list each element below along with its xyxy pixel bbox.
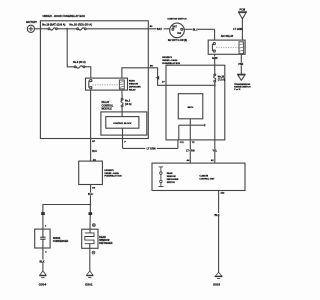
wire: junction to rear window defogger — [89, 205, 91, 230]
svg-text:CLIMATE: CLIMATE — [199, 175, 208, 178]
wire: fuse No.26 down through box — [214, 82, 216, 140]
svg-text:FUSE/RELAY BOX: FUSE/RELAY BOX — [162, 62, 180, 65]
connector on condenser wire — [41, 212, 45, 215]
svg-text:G504: G504 — [39, 282, 47, 286]
wire: noise condenser to ground G504 — [42, 248, 44, 271]
svg-text:IGNITION SWITCH: IGNITION SWITCH — [168, 19, 187, 21]
svg-text:LT GRN: LT GRN — [233, 28, 242, 31]
svg-text:BLU: BLU — [92, 150, 97, 153]
wire: A/C relay contact to under-dash fuse No.26, GRN — [214, 54, 216, 74]
connector on defogger wire — [89, 212, 93, 215]
rear window defogger switch — [158, 167, 179, 187]
svg-text:MODULE: MODULE — [102, 108, 113, 111]
node: junction to noise condenser — [89, 204, 91, 206]
svg-text:CONDENSER: CONDENSER — [53, 240, 69, 243]
climate control unit — [152, 163, 245, 190]
svg-text:BLK: BLK — [214, 214, 219, 217]
ground G501 — [85, 271, 93, 286]
fuse No.2 (10 A) — [121, 98, 132, 107]
svg-text:UNDER - DASH: UNDER - DASH — [104, 172, 119, 175]
wire: fuse No.9 to defogger relay contact — [85, 67, 91, 78]
svg-text:FUSE/RELAY BOX: FUSE/RELAY BOX — [104, 175, 122, 178]
svg-text:RELAY: RELAY — [129, 89, 136, 92]
svg-text:PCM: PCM — [240, 8, 246, 11]
fuse No.26 (7.5 A) — [214, 74, 225, 82]
wire: defogger to ground G501 — [89, 248, 91, 271]
control block — [106, 117, 139, 129]
svg-text:PNK: PNK — [238, 63, 243, 66]
svg-text:No.20 (RD) (50 A): No.20 (RD) (50 A) — [69, 23, 92, 27]
svg-text:LT GRN: LT GRN — [146, 148, 155, 151]
svg-text:WINDOW: WINDOW — [129, 84, 138, 86]
svg-text:BAT: BAT — [157, 28, 162, 31]
ignition switch — [168, 19, 188, 43]
svg-text:DRIVER'S: DRIVER'S — [162, 57, 172, 59]
svg-text:CONTROL BLOCK: CONTROL BLOCK — [113, 123, 132, 125]
rear window defogger — [82, 229, 113, 248]
svg-text:REAR: REAR — [129, 79, 135, 82]
svg-text:MICU: MICU — [188, 107, 194, 109]
wire: A/C relay coil to transmission range switch, PNK — [240, 54, 242, 74]
svg-text:IG2 HOT in ON (II): IG2 HOT in ON (II) — [168, 40, 187, 42]
wire: battery feed to ignition switch — [35, 28, 170, 30]
svg-text:DEFOGGER: DEFOGGER — [167, 179, 179, 181]
connector symbol on wire — [156, 76, 160, 80]
svg-text:SWITCH: SWITCH — [167, 182, 176, 184]
svg-text:(7.5 A): (7.5 A) — [218, 79, 225, 82]
wire: ignition IG2 to A/C relay — [184, 29, 214, 40]
wire: relay coil bottom to fuse No.2 — [121, 90, 123, 98]
svg-text:REAR: REAR — [99, 236, 106, 239]
wire: MICU to pins C11 / T3 — [179, 119, 205, 140]
connector arrow to PCM — [238, 8, 247, 18]
node: junction — [214, 84, 216, 86]
MICU — [178, 94, 203, 119]
svg-text:GRN: GRN — [212, 57, 218, 60]
svg-text:(10 A): (10 A) — [125, 103, 132, 106]
fuse No.18 (BAT) (100 A) — [42, 24, 65, 30]
under-hood fuse/relay box — [40, 14, 148, 139]
svg-text:No.9 (40 A): No.9 (40 A) — [73, 61, 86, 64]
svg-text:BLK: BLK — [39, 261, 44, 264]
svg-text:G501: G501 — [85, 282, 93, 286]
svg-text:DRIVER'S: DRIVER'S — [104, 170, 114, 172]
wire label BLK — [214, 213, 219, 217]
wire: control block output to under-dash box C11 — [123, 128, 178, 148]
svg-text:BATTERY: BATTERY — [26, 21, 37, 24]
A/C relay — [208, 35, 245, 54]
wire: relay coil top to under-dash box pin — [122, 68, 166, 86]
svg-text:LT GRN: LT GRN — [186, 151, 195, 153]
wire: fuse No.2 into control block — [121, 107, 123, 117]
rear window defogger relay — [86, 78, 142, 92]
noise condenser — [35, 229, 69, 248]
svg-text:BLU: BLU — [193, 28, 198, 31]
svg-text:WINDOW: WINDOW — [167, 176, 176, 178]
wire: junction to noise condenser — [43, 205, 91, 230]
driver's under-dash fuse/relay box — [79, 161, 123, 184]
svg-text:No.26: No.26 — [218, 76, 225, 78]
terminal + — [93, 224, 96, 227]
svg-text:BAT: BAT — [172, 25, 177, 28]
wire: box to junction, BLU — [89, 185, 91, 205]
terminal - — [92, 251, 95, 254]
svg-text:REAR: REAR — [167, 172, 173, 175]
wire: under-dash fuse No.26 to climate control unit, YEL — [214, 140, 216, 163]
svg-text:DEFOGGER: DEFOGGER — [129, 87, 141, 89]
ground G503 — [213, 272, 222, 286]
svg-text:No.18 (BAT) (100 A): No.18 (BAT) (100 A) — [42, 24, 65, 27]
svg-text:UNDER - DASH: UNDER - DASH — [162, 59, 177, 62]
svg-text:CONTROL UNIT: CONTROL UNIT — [199, 179, 215, 181]
wire: branch down to fuse No.9 — [67, 29, 74, 67]
battery B1 — [26, 21, 37, 33]
svg-text:UNDER - HOOD FUSE/RELAY BOX: UNDER - HOOD FUSE/RELAY BOX — [43, 14, 86, 18]
wire: defogger relay contact to driver's under-dash box, BLU — [90, 90, 92, 161]
wire: box left pin to junction — [166, 84, 215, 86]
ground G504 — [39, 271, 47, 286]
svg-text:YEL: YEL — [212, 150, 217, 153]
wire: under-dash T3 to climate control unit, LT GRN — [189, 140, 191, 163]
node: junction battery wire to 40A branch — [66, 28, 68, 30]
relay control module — [101, 101, 147, 135]
connector arrow to transmission range switch — [234, 74, 251, 91]
svg-text:G503: G503 — [213, 283, 220, 287]
wire: PCM to A/C relay coil, LT GRN — [241, 19, 243, 40]
wire: climate control unit to ground G503, BLK — [218, 191, 220, 273]
svg-text:DEFOGGER: DEFOGGER — [99, 243, 112, 245]
svg-text:A/C RELAY: A/C RELAY — [221, 35, 234, 38]
svg-text:WINDOW: WINDOW — [99, 240, 110, 242]
svg-text:BLU: BLU — [88, 193, 93, 196]
fuse No.9 (40 A) — [73, 61, 86, 68]
wire label BLK — [39, 260, 45, 264]
svg-text:P or N: P or N — [234, 88, 241, 91]
passenger's under-dash fuse/relay box — [162, 57, 225, 140]
fuse No.20 (50 A) — [69, 23, 92, 30]
